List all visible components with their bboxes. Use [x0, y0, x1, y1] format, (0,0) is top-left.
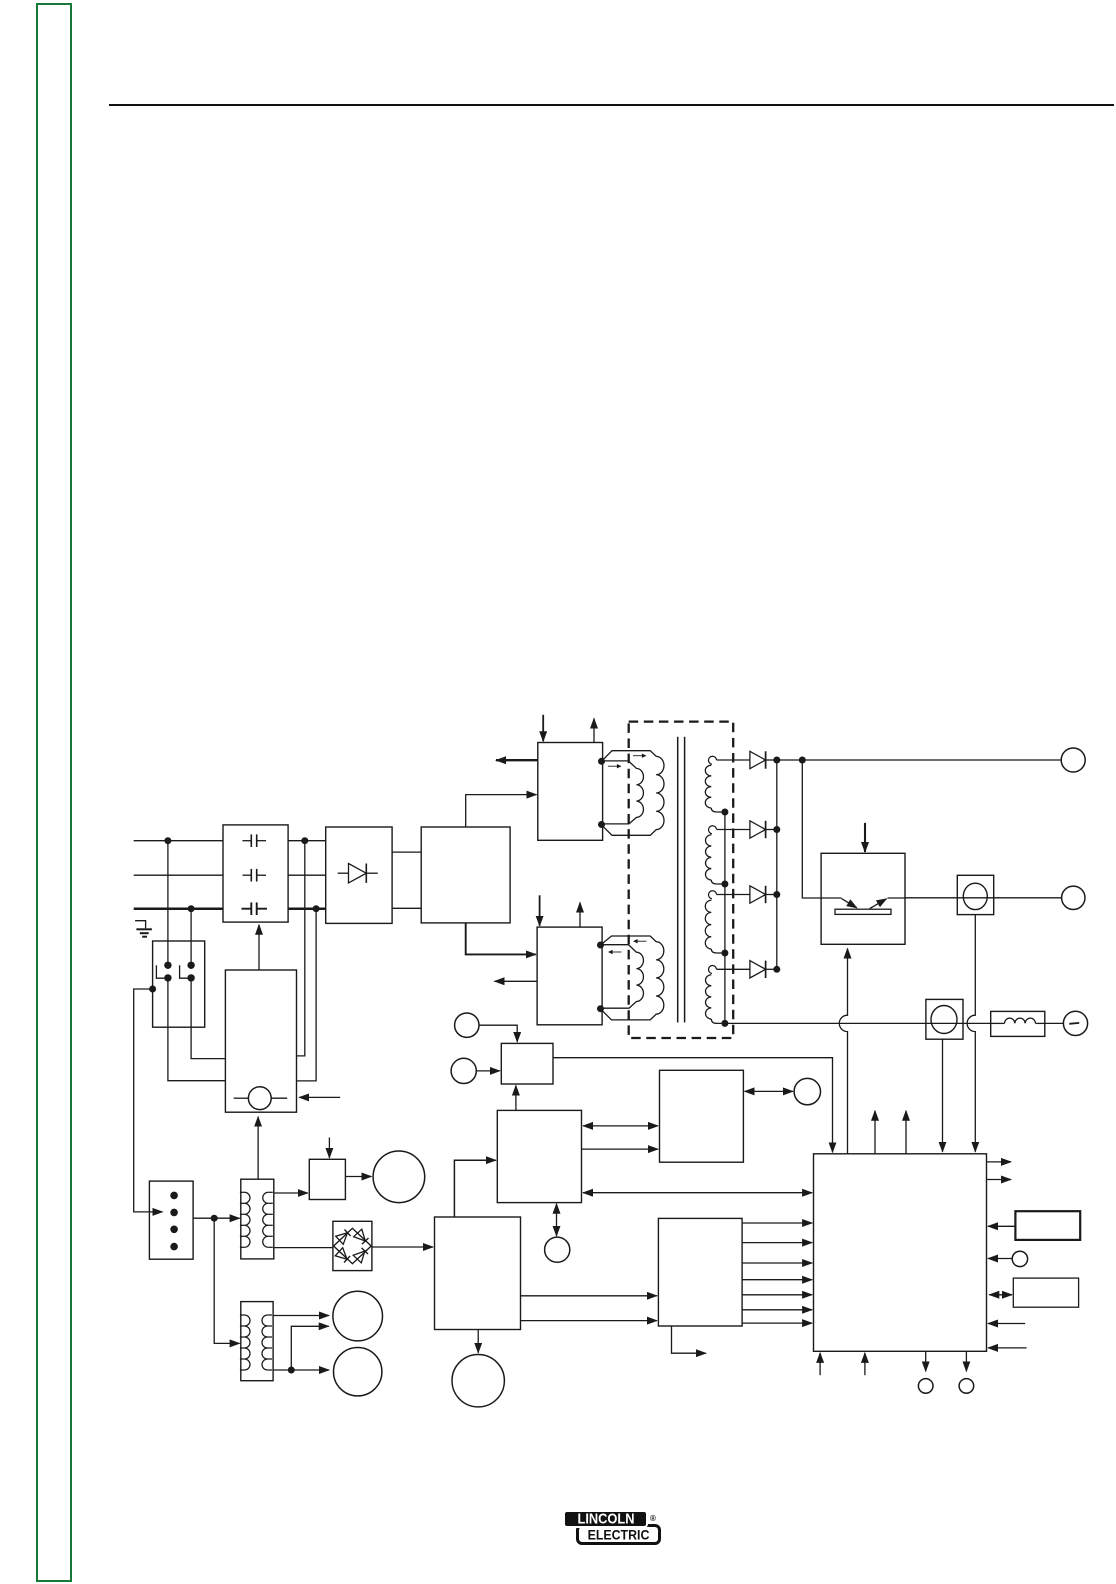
protection small box [309, 1159, 345, 1199]
arrow main board to status circle 1 [925, 1351, 927, 1371]
T2 secondary winding [263, 1192, 269, 1247]
node T2/T3 feed [211, 1215, 218, 1222]
output choke L1 (box) [991, 1011, 1045, 1036]
secondary 3 bottom lead [711, 949, 725, 953]
bus weld control to main board (double arrow) [583, 1192, 812, 1194]
line voltage sense box [501, 1043, 553, 1084]
input sense circle B [451, 1058, 476, 1083]
negative output bus wire [725, 1022, 991, 1024]
arrow out of upper chopper top [593, 719, 595, 743]
arrow power supply board down to aux circle [477, 1330, 479, 1353]
wire rectifier to inverter bottom [392, 907, 421, 909]
transformer secondary winding 3 [709, 891, 717, 899]
phase C wire cap-board to rectifier (bold) [288, 907, 326, 910]
arrow out of lower chopper top [579, 903, 581, 928]
contactor contact 2 dots [187, 962, 194, 969]
wire remote pot to main board (arrow) [988, 1258, 1012, 1260]
phase B wire cap-board to rectifier [288, 874, 326, 876]
Lincoln Electric logo [563, 1510, 673, 1550]
secondary 4 bottom lead [711, 1019, 725, 1023]
transistor symbol emitter diagonal (arrow) [842, 899, 857, 908]
wire contact 2 to aux transformer [191, 978, 225, 1059]
secondary 1 top lead wire [717, 759, 750, 761]
remote pot circle [1012, 1251, 1027, 1266]
remote display circle [794, 1078, 820, 1104]
output terminal positive (circle) [1061, 748, 1085, 772]
bridge rectifier diodes [334, 1228, 372, 1263]
output terminal negative (circle) [1063, 1011, 1087, 1035]
arrow weld control board to line sense box [515, 1086, 517, 1111]
phase line B wire [134, 874, 223, 876]
wire choke to negative terminal [1045, 1022, 1064, 1024]
transformer secondary winding 4 [709, 966, 717, 974]
arrow T2 to aux box [257, 1117, 259, 1180]
node center tap 4 (to negative bus) [721, 1020, 728, 1027]
wire line sense box to main board (arrow) [553, 1058, 833, 1153]
power supply board (box) [435, 1217, 521, 1330]
bus display to remote circle (double arrow) [745, 1090, 793, 1092]
transformer core line 2 [684, 737, 686, 1023]
main control PC board (box) [814, 1154, 987, 1352]
arrow into upper chopper top [542, 715, 544, 741]
gate driver outputs to main board (7 arrows) [742, 1222, 812, 1224]
arrow main board to status circle 2 [965, 1351, 967, 1371]
secondary 4 top lead wire [717, 968, 750, 970]
wire T2 to protection box (arrow) [274, 1192, 308, 1194]
fan supply transformer T3 (box) [241, 1302, 273, 1381]
input rectifier bridge (box) [326, 827, 392, 923]
node phase A tap [164, 837, 171, 844]
node upper primary lead 2 [598, 821, 605, 828]
auxiliary power circle [452, 1355, 504, 1407]
low voltage bridge rectifier (box) [333, 1221, 372, 1270]
sensor 2 signal wire to control board [942, 1039, 944, 1152]
transformer primary winding lower [601, 936, 664, 1020]
positive output bus wire [777, 759, 1061, 761]
wire remote receptacle to main board (arrow) [988, 1225, 1015, 1227]
arrow into main board bottom 2 [864, 1353, 866, 1375]
node phase A right tap [301, 837, 308, 844]
transistor symbol collector diagonal (arrow) [870, 899, 887, 909]
node T3 secondary tap [288, 1367, 295, 1374]
gate drive line from control board with crossover hop [839, 949, 847, 1154]
current direction arrow lower-a [635, 940, 647, 942]
arrow out of main board top 2 [905, 1111, 907, 1154]
secondary 1 bottom lead [711, 808, 725, 812]
wire down to T3 (arrow) [214, 1218, 239, 1343]
T3 primary winding [244, 1315, 250, 1370]
wire rectifier to inverter top [392, 851, 421, 853]
auxiliary transformer / fan motor box [225, 970, 296, 1112]
wire weld control to display (arrow) [582, 1148, 659, 1150]
capacitor C3 [242, 908, 252, 910]
wire protection box to thermostat circle (arrow) [345, 1176, 371, 1178]
bus weld control to display (double arrow) [583, 1125, 658, 1127]
wire contact 1 to aux transformer [168, 978, 226, 1081]
sensor 1 signal wire to control board with hop [967, 915, 975, 1152]
T3 secondary winding [262, 1315, 268, 1370]
current shunt sensor 2 (box) [926, 999, 963, 1039]
terminal strip dots [170, 1192, 178, 1200]
arrow out of lower chopper left [495, 980, 538, 982]
node lower primary lead 2 [597, 1005, 604, 1012]
node diode D1 cathode [773, 757, 780, 764]
input contactor CR1 (box) [153, 941, 205, 1027]
node diode D2 cathode [773, 826, 780, 833]
wire positive bus down to transistor module [802, 760, 821, 898]
earth ground symbol [135, 921, 146, 929]
wire T3 to fan motor 1 (arrow) [273, 1315, 329, 1317]
lower chopper board (box) [537, 927, 602, 1025]
capacitor C2 [243, 874, 252, 876]
fan motor 1 (circle) [333, 1291, 383, 1341]
transistor symbol base bar [835, 909, 891, 914]
wire inverter to lower chopper (bold arrow) [466, 923, 536, 955]
wire circle B to line sense box (arrow) [476, 1070, 500, 1072]
upper chopper board (box) [538, 743, 603, 841]
display board (box) [660, 1070, 744, 1162]
arrow into transistor module top (bold) [864, 823, 866, 852]
gate driver board (box) [658, 1218, 742, 1326]
current direction arrow upper-a [633, 755, 645, 757]
arrow thermal input into aux box [299, 1096, 340, 1098]
secondary 2 top lead wire [717, 829, 750, 831]
green sidebar frame [36, 3, 72, 1582]
wire T2 to bridge rectifier [274, 1247, 333, 1249]
control transformer T2 (box) [241, 1179, 274, 1259]
node diode D4 cathode [773, 966, 780, 973]
main transformer T1 dashed outline [629, 722, 734, 1038]
wire phase C down to contactor [190, 909, 192, 966]
wire input into main board right 2 (arrow) [988, 1347, 1027, 1349]
wire input into main board right 1 (arrow) [988, 1323, 1025, 1325]
bold arrow out of upper chopper left [496, 759, 538, 761]
secondary 3 top lead wire [717, 894, 750, 896]
current direction arrow upper-b [608, 765, 620, 767]
wire terminal strip to T2 (arrow) [193, 1217, 214, 1219]
weld control / feedback board (box) [497, 1110, 581, 1202]
node phase C right tap [313, 905, 320, 912]
wire circle A to line sense box (arrow) [479, 1025, 517, 1042]
transformer secondary winding 2 [709, 826, 717, 834]
contactor contact 1 dots [164, 962, 171, 969]
fan motor symbol (circle) [234, 1097, 249, 1099]
contactor contact 2 actuator [180, 965, 188, 978]
cathode bus wire [776, 760, 778, 969]
node contactor coil feed [149, 986, 156, 993]
arrow out of main board right 1 [987, 1161, 1012, 1163]
node diode D3 cathode [773, 891, 780, 898]
transistor symbol output lead [888, 897, 906, 899]
input sense circle A [455, 1013, 479, 1037]
switch board / inverter section (box) [421, 827, 510, 923]
negative terminal minus sign [1069, 1022, 1079, 1025]
node center tap 2 [721, 881, 728, 888]
remote receptacle box [1015, 1211, 1080, 1240]
secondary 2 bottom lead [711, 880, 725, 884]
top horizontal rule [109, 104, 1114, 106]
bus wire feeder interface to main board (double arrow) [989, 1294, 1012, 1296]
current sensor 1 coil (circle) [963, 883, 987, 909]
wire power supply to gate driver 1 (arrow) [521, 1295, 657, 1297]
status circle 1 [918, 1379, 933, 1394]
wire phase A feed to aux box [297, 841, 305, 1056]
node lower primary lead 1 [597, 942, 604, 949]
node phase C tap [188, 905, 195, 912]
current sensor 2 coil (circle) [931, 1006, 957, 1034]
current direction arrow lower-b [610, 951, 622, 953]
wire transistor module to output terminal [905, 897, 1062, 899]
bus weld control to encoder circle (double arrow) [556, 1204, 558, 1236]
output terminal electrode (circle) [1062, 886, 1085, 909]
reconnect terminal strip (box with dots) [149, 1181, 193, 1259]
status circle 2 [959, 1379, 974, 1394]
wire phase C feed to aux box [297, 909, 317, 1081]
transformer primary winding upper [602, 751, 665, 836]
arrow aux transformer to capacitor board [258, 925, 260, 970]
transformer secondary winding 1 [709, 756, 717, 764]
input filter capacitor board (box) [223, 825, 288, 922]
arrow into main board bottom 1 [819, 1353, 821, 1375]
phase A wire cap-board to rectifier [288, 840, 326, 842]
node center tap 1 [721, 809, 728, 816]
arrow out of main board top 1 [874, 1111, 876, 1154]
encoder circle [545, 1237, 570, 1262]
phase line A wire [134, 840, 223, 842]
center tap rail wire [724, 812, 726, 1023]
transistor symbol collector lead [821, 897, 841, 899]
thermostat circle [373, 1151, 425, 1203]
node center tap 3 [721, 950, 728, 957]
output choke coil symbol [1005, 1018, 1036, 1023]
phase line C wire (bold) [134, 907, 223, 910]
wire feeder interface box [1013, 1278, 1078, 1307]
output diode D3 [750, 886, 766, 903]
output freewheeling module (transistor box) [821, 853, 905, 944]
output diode D1 [750, 751, 766, 768]
arrow out of main board right 2 [987, 1179, 1012, 1181]
arrow into protection box top [328, 1138, 330, 1158]
capacitor C1 [243, 840, 252, 842]
current shunt sensor 1 (box) [957, 875, 993, 914]
rectifier SCR symbol [338, 872, 349, 874]
wire power supply to gate driver 2 (arrow) [521, 1320, 657, 1322]
node upper primary lead 1 [598, 758, 605, 765]
fan motor 2 (circle) [334, 1348, 382, 1396]
wire phase A down to contactor [167, 841, 169, 966]
output diode D2 [750, 821, 766, 838]
contactor contact 1 actuator [156, 965, 164, 978]
wire contactor to reconnect terminal strip [134, 989, 163, 1212]
transformer core line 1 [677, 737, 679, 1023]
output diode D4 [750, 961, 766, 978]
wire power supply board to weld control board (arrow) [454, 1160, 495, 1217]
gate driver bottom tap (arrow) [672, 1326, 706, 1353]
T2 primary winding [244, 1192, 250, 1247]
arrow into lower chopper top [539, 895, 541, 926]
node positive bus tap [799, 757, 806, 764]
wire bridge to power supply board (arrow) [372, 1246, 433, 1248]
wire T3 tap up to fan motor 1 (arrow) [291, 1326, 328, 1370]
wire inverter to upper chopper (arrow) [466, 795, 537, 827]
wire T3 to fan motor 2 (arrow) [273, 1369, 291, 1371]
